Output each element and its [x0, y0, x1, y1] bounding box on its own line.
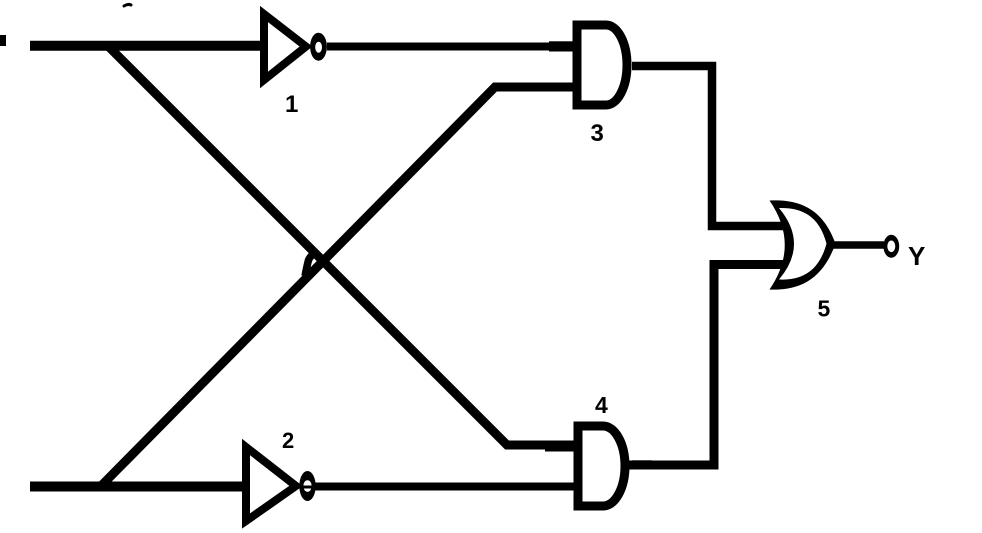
svg-text:1: 1	[285, 91, 298, 118]
svg-text:2: 2	[282, 428, 294, 453]
svg-text:Y: Y	[908, 241, 925, 271]
svg-text:4: 4	[595, 392, 608, 418]
svg-text:3: 3	[591, 120, 604, 147]
svg-text:5: 5	[818, 296, 831, 322]
